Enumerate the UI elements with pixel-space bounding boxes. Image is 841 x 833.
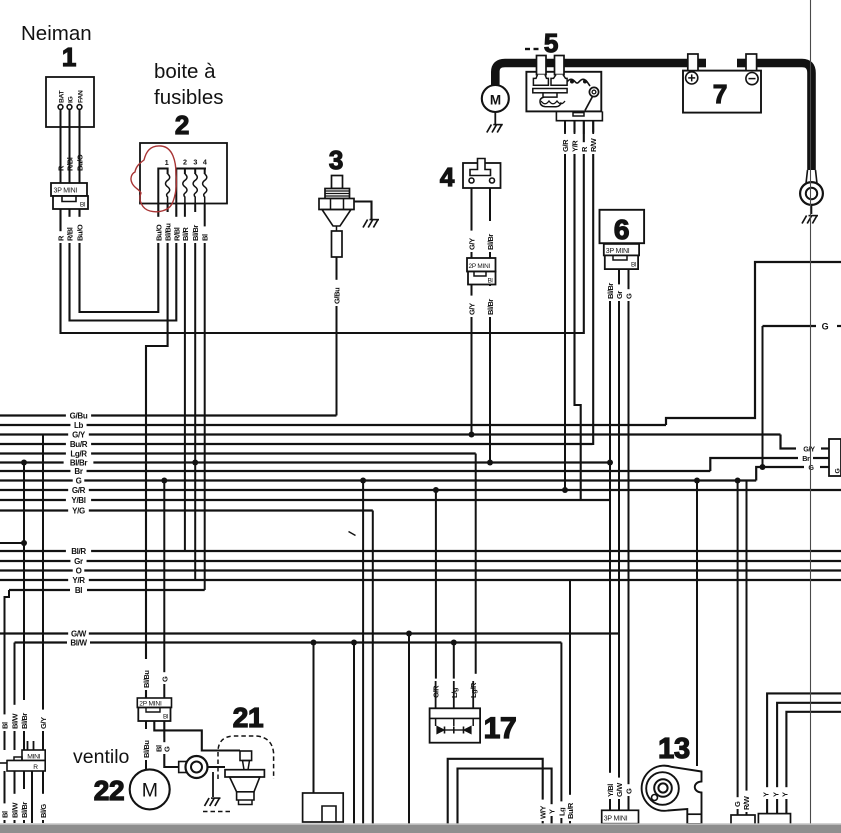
svg-text:Bl: Bl: [487, 278, 492, 285]
wire G/Y fan switch to bus: [469, 188, 475, 438]
wire bus Lg/R turns down x475.7 to unit 17: [0, 449, 476, 681]
wire bus Gr: [0, 557, 841, 566]
wire bus O: [0, 566, 841, 575]
svg-text:MINI: MINI: [27, 754, 41, 761]
svg-text:G/Bu: G/Bu: [70, 411, 88, 420]
starter relay 5 number: [525, 28, 558, 58]
wire L/g branch from Bl/W to unit 17: [451, 640, 457, 682]
connector 2P MINI below fan switch: [467, 258, 496, 285]
svg-text:3P MINI: 3P MINI: [604, 816, 628, 823]
ground symbol at battery ring terminal: [802, 216, 818, 224]
wire color labels vertical: [0, 133, 789, 821]
wire fourth below left MINI: [31, 771, 33, 823]
svg-text:Bl/Br: Bl/Br: [20, 802, 29, 818]
svg-text:Bu/R: Bu/R: [566, 802, 575, 819]
wire W/Y outer path to bottom: [448, 759, 543, 833]
battery cable thick from motor over relay 5 and battery 7 to ground ring: [495, 63, 811, 172]
wire bus G/R: [0, 486, 841, 495]
svg-text:G: G: [163, 746, 172, 752]
battery 7 with plus and minus terminals: [683, 54, 761, 113]
svg-text:Bl/W: Bl/W: [11, 713, 20, 729]
starter relay 5 body: [526, 56, 602, 135]
svg-text:G: G: [733, 801, 742, 807]
connector MINI bottom right: [758, 814, 790, 833]
svg-text:Bl: Bl: [75, 586, 82, 595]
svg-text:3P MINI: 3P MINI: [54, 188, 78, 195]
wire R/W to 6P connector: [746, 481, 748, 816]
svg-text:fusibles: fusibles: [154, 86, 224, 109]
svg-text:G/Y: G/Y: [803, 444, 815, 453]
wire ring terminal to relay 21: [208, 766, 226, 768]
svg-text:Bl/Br: Bl/Br: [191, 225, 200, 241]
svg-text:ventilo: ventilo: [73, 746, 130, 768]
ignition switch 1 Neiman box with BAT IG FAN terminals: [46, 77, 94, 209]
fuse box 2 number: [175, 110, 189, 140]
connector 3P MINI bottom: [602, 810, 639, 823]
ground symbol at starter motor: [487, 125, 503, 133]
svg-text:21: 21: [233, 702, 264, 733]
svg-text:Bl/Bu: Bl/Bu: [164, 223, 173, 241]
svg-text:Y/Bl: Y/Bl: [606, 784, 615, 797]
wire Bl/W below left MINI: [14, 771, 16, 823]
connector 3P MINI below ignition switch: [51, 183, 88, 209]
svg-text:G/R: G/R: [561, 139, 570, 152]
wire Y 1 to bottom MINI: [767, 693, 841, 813]
svg-text:6: 6: [614, 214, 629, 245]
wire Bl/Bu fuse 1 to fan connector with jog at y346: [146, 203, 168, 698]
wire bus G/Bu ends at sensor wire: [0, 411, 337, 420]
svg-text:2P MINI: 2P MINI: [469, 263, 491, 270]
thermo sensor 3 number: [329, 145, 343, 175]
wire ground drop relay 21: [212, 772, 214, 797]
scrollbar bottom: [0, 823, 841, 833]
svg-text:Bl/W: Bl/W: [11, 802, 20, 818]
connector 6P bottom: [731, 815, 755, 833]
svg-text:Bl/Bu: Bl/Bu: [142, 740, 151, 758]
box bottom left with inner U: [303, 793, 344, 822]
wire Bl/G below left MINI: [42, 771, 44, 823]
wire x363 from bus G to bottom: [360, 478, 366, 833]
svg-text:Y/Bl: Y/Bl: [71, 496, 85, 505]
svg-text:M: M: [142, 780, 158, 802]
wire Bl/Br below left MINI: [23, 771, 25, 823]
wire Bu/R from bus Y/R down: [569, 580, 571, 833]
wire Bl/R fuse output to bus: [184, 203, 186, 551]
svg-text:G/R: G/R: [72, 486, 86, 495]
wire G to 6P connector from bus G: [735, 478, 741, 816]
fuse box 2 with fuses 1 2 3 4: [140, 143, 227, 204]
svg-text:13: 13: [658, 733, 690, 765]
connector right edge G: [822, 439, 841, 476]
svg-text:Y: Y: [761, 792, 770, 797]
svg-text:G/Y: G/Y: [468, 238, 477, 250]
svg-text:G: G: [625, 788, 634, 794]
wire Gr-G/W vertical x619 comp6 to bottom 3P MINI: [618, 269, 620, 810]
wire R/W starter relay to bus Bu/R end: [592, 121, 593, 444]
svg-text:17: 17: [484, 712, 517, 745]
svg-text:Bl/R: Bl/R: [71, 547, 86, 556]
wire bus G/Y to right connector: [0, 430, 829, 448]
svg-text:Bl/G: Bl/G: [39, 804, 48, 818]
wire Bl/Br-Y/Bl vertical x610 comp6 to bottom 3P MINI: [607, 269, 613, 810]
wire x409 from bus G/W to bottom: [406, 631, 412, 833]
svg-text:O: O: [76, 566, 82, 575]
svg-text:Bl/R: Bl/R: [181, 227, 190, 241]
svg-text:G/Bu: G/Bu: [333, 287, 342, 304]
ground symbol fan relay: [205, 798, 221, 806]
svg-text:22: 22: [94, 775, 125, 806]
wire bus Y/R: [0, 576, 841, 585]
wire bus Bl/W left corner x14.5 down: [15, 638, 562, 750]
ground symbol at sensor 3: [363, 220, 379, 228]
svg-text:Bu/O: Bu/O: [154, 224, 163, 241]
svg-text:Y: Y: [780, 792, 789, 797]
label G right edge: [808, 463, 814, 472]
wire Bl/Br branch x24 to left MINI connector: [0, 460, 27, 751]
wire x354 from bus Bl/W to bottom: [351, 640, 357, 833]
page fold vertical line: [810, 0, 812, 824]
svg-text:3: 3: [193, 158, 197, 167]
svg-text:boite à: boite à: [154, 60, 216, 83]
wire Y inner path to bottom: [458, 769, 552, 833]
svg-text:FAN: FAN: [78, 90, 85, 103]
wire G/Bu sensor 3 to bus: [336, 257, 338, 416]
svg-text:Bl/Bu: Bl/Bu: [142, 670, 151, 688]
svg-text:Bl: Bl: [80, 202, 86, 209]
connector 3P MINI of component 6: [604, 244, 639, 269]
diode unit 17: [430, 681, 481, 743]
svg-text:IG: IG: [68, 97, 75, 103]
svg-text:2P MINI: 2P MINI: [139, 701, 162, 708]
wire bus Y/Bl ends at x610 wire: [0, 496, 610, 505]
svg-text:Br: Br: [74, 467, 82, 476]
svg-text:Bl: Bl: [163, 714, 168, 721]
svg-text:Bl/W: Bl/W: [70, 638, 87, 647]
wire bus Bl/R: [0, 547, 841, 556]
relay box 6 number box: [600, 210, 645, 245]
svg-text:3P MINI: 3P MINI: [606, 248, 630, 255]
wire bus Y/G turns down at x372.8: [0, 506, 373, 833]
svg-text:G: G: [808, 463, 814, 472]
red hand-drawn annotation loop around fuse 1: [131, 146, 176, 212]
svg-text:Neiman: Neiman: [21, 22, 92, 45]
svg-text:Bl/Br: Bl/Br: [606, 283, 615, 299]
wire Lg from Bl/W end down: [560, 643, 562, 833]
svg-text:1: 1: [62, 42, 76, 72]
svg-text:R/Bl: R/Bl: [66, 227, 75, 241]
wire bus Bl left corner x9 down, right corner up to fuse box: [5, 586, 205, 750]
unit 13 body: [642, 766, 702, 824]
wire Y 3 to bottom MINI: [786, 712, 841, 814]
unit 13 number: [658, 733, 690, 765]
wire bus Lb steps up at x666 then x755 to top right edge: [0, 262, 841, 430]
svg-text:M: M: [490, 93, 501, 108]
ring terminal fan ground: [179, 756, 208, 778]
text Neiman: [21, 22, 92, 45]
svg-text:G/Y: G/Y: [39, 717, 48, 729]
svg-text:G/W: G/W: [71, 629, 87, 638]
svg-text:Gr: Gr: [74, 557, 83, 566]
fan switch 4 number: [440, 162, 455, 192]
svg-text:Y: Y: [771, 792, 780, 797]
svg-text:Bl: Bl: [1, 722, 10, 729]
wire bus G/W ends turning down at comp6 Gr wire: [0, 629, 620, 638]
starter motor M: [482, 85, 509, 124]
fan motor 22 number: [94, 775, 125, 806]
wire G/R starter relay to bus G/R: [562, 121, 568, 493]
wire bus Bu/R: [0, 440, 593, 449]
svg-text:Gr: Gr: [615, 291, 624, 299]
svg-text:4: 4: [203, 158, 207, 167]
svg-text:4: 4: [440, 162, 455, 192]
svg-text:Br: Br: [802, 454, 810, 463]
svg-text:Lg/R: Lg/R: [70, 449, 87, 458]
wire R from neiman to starter relay long run y333: [61, 121, 584, 333]
wire Bl jog fan connector to relay 21: [154, 721, 240, 751]
svg-text:G: G: [822, 322, 829, 332]
svg-text:BAT: BAT: [59, 89, 66, 103]
svg-text:Y/G: Y/G: [72, 506, 85, 515]
speck mark: [349, 532, 356, 536]
wire Bl/Bu fan connector to motor: [145, 721, 147, 770]
svg-text:Y/R: Y/R: [72, 576, 85, 585]
unit 17 number: [484, 712, 517, 745]
svg-text:Bu/O: Bu/O: [76, 224, 85, 241]
svg-text:5: 5: [544, 28, 558, 58]
svg-text:1: 1: [165, 158, 169, 167]
ring terminal battery ground cable: [800, 170, 823, 214]
wire bus G steps up at x756 to right connector: [0, 467, 829, 485]
wire Bu/O neiman to fuse box: [80, 203, 159, 312]
wire Bl/Br fan switch to bus: [487, 188, 493, 466]
wire G fan relay branch from bus G: [161, 478, 167, 699]
svg-text:G/W: G/W: [615, 782, 624, 797]
wire R/Bl neiman to fuse box: [70, 203, 177, 321]
svg-text:3: 3: [329, 145, 343, 175]
svg-text:G: G: [160, 676, 169, 682]
svg-text:2: 2: [183, 158, 187, 167]
svg-text:R/W: R/W: [742, 795, 751, 810]
label G/Y right edge: [803, 444, 815, 453]
svg-text:G/Y: G/Y: [72, 430, 86, 439]
svg-text:Bl/Br: Bl/Br: [486, 299, 495, 315]
svg-text:Bu/R: Bu/R: [70, 440, 88, 449]
svg-text:W/Y: W/Y: [539, 806, 548, 819]
wire G vertical x628.5 comp6 to bottom 3P MINI: [628, 269, 630, 810]
svg-text:Lb: Lb: [74, 421, 84, 430]
wire bus Bl/Br: [0, 458, 610, 467]
ignition switch 1 number: [62, 42, 76, 72]
wire Y/R starter relay down to bus Y/Bl: [575, 121, 581, 500]
text boite a fusibles: [154, 60, 224, 109]
connector MINI left edge: [0, 741, 45, 771]
wire x313.5 from bus Bl/W to bottom box: [311, 640, 317, 794]
fan switch 4 body: [463, 159, 501, 189]
relay 21 number: [233, 702, 264, 733]
connector 2P MINI fan: [137, 698, 171, 721]
wire G net top right with label G: [760, 322, 841, 471]
wire G branch x697 to unit 13: [694, 478, 700, 767]
svg-text:Bl/Br: Bl/Br: [20, 713, 29, 729]
svg-text:Bl: Bl: [1, 811, 10, 818]
wire sensor 3 to ground: [354, 202, 372, 220]
svg-text:7: 7: [713, 79, 727, 109]
svg-text:G: G: [76, 476, 82, 485]
label Br right edge: [802, 454, 810, 463]
wire G/R branch down to unit 17: [433, 487, 439, 681]
text ventilo: [73, 746, 130, 768]
svg-text:Y: Y: [548, 809, 557, 814]
svg-text:G: G: [835, 469, 841, 474]
wire bus Br steps up at x710 to right connector: [0, 458, 829, 476]
wire G fan connector to ring terminal: [164, 721, 178, 767]
svg-text:G: G: [625, 293, 634, 299]
wire Bl fuse output to bus Bl: [204, 203, 206, 590]
svg-text:R: R: [33, 764, 38, 771]
wire Y 2 to bottom MINI: [777, 703, 841, 814]
fan motor M 22: [130, 769, 170, 809]
wire G/Y branch x43 to left MINI connector: [42, 435, 44, 751]
svg-text:2: 2: [175, 110, 189, 140]
svg-text:Bl/Br: Bl/Br: [486, 234, 495, 250]
svg-text:Bl: Bl: [201, 234, 210, 241]
svg-text:G/Y: G/Y: [468, 303, 477, 315]
thermo sensor 3 body: [319, 176, 354, 263]
svg-text:Y/R: Y/R: [571, 140, 580, 152]
wire Bl/Br fuse output to bus: [192, 203, 198, 580]
relay 21 body with dashed outline: [203, 736, 274, 812]
svg-text:Bl: Bl: [631, 262, 636, 269]
svg-text:R/W: R/W: [589, 137, 598, 152]
wire Bl below left MINI: [4, 771, 6, 823]
